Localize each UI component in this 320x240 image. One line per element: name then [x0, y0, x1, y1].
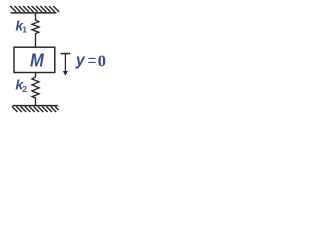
datum arrowhead: [63, 71, 68, 76]
label k1: [15, 18, 27, 35]
svg-text:2: 2: [22, 84, 27, 94]
top fixed support hatching: [10, 6, 59, 12]
svg-text:0: 0: [98, 51, 106, 70]
top fixed support line: [11, 12, 57, 14]
datum reference bar: [61, 53, 71, 55]
svg-text:=: =: [88, 52, 97, 69]
spring k2: [32, 73, 39, 106]
datum arrow stem: [64, 54, 66, 72]
svg-text:M: M: [30, 50, 45, 70]
svg-text:1: 1: [22, 24, 27, 34]
svg-text:y: y: [75, 52, 86, 69]
label y = 0: [75, 51, 106, 70]
mass M box: [14, 47, 55, 72]
label k2: [15, 77, 27, 94]
bottom fixed support hatching: [12, 107, 59, 113]
spring k1: [32, 13, 39, 47]
bottom fixed support line: [13, 105, 59, 107]
